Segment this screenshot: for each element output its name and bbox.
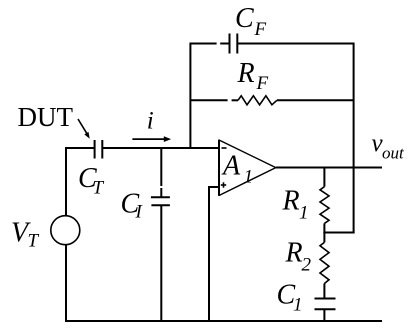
- svg-text:C: C: [235, 3, 254, 34]
- svg-text:DUT: DUT: [18, 102, 74, 132]
- wire: junction to feedback vertical: [323, 232, 354, 234]
- svg-text:A: A: [221, 151, 241, 182]
- label C_T: [78, 163, 105, 199]
- wire: R2 top lead: [323, 233, 325, 243]
- svg-text:1: 1: [299, 203, 309, 224]
- svg-text:T: T: [28, 231, 40, 252]
- label V_T: [11, 218, 40, 252]
- svg-text:R: R: [282, 186, 300, 217]
- label A_1: [221, 151, 253, 188]
- wire: feedback right vertical (down to R1-R2 junction): [353, 43, 355, 234]
- svg-text:F: F: [254, 19, 267, 40]
- label C_F: [235, 3, 267, 40]
- wire: C_F right lead to right feedback vertical: [237, 43, 354, 45]
- capacitor C_T: [95, 140, 103, 159]
- wire: main input wire C_T to op-amp inverting input: [102, 147, 218, 149]
- svg-text:F: F: [256, 73, 269, 94]
- capacitor C_F: [230, 34, 238, 54]
- svg-text:R: R: [237, 58, 255, 89]
- label R_2: [285, 238, 312, 276]
- label v_out: [372, 130, 406, 163]
- label R_F: [237, 58, 269, 94]
- svg-text:1: 1: [244, 167, 254, 188]
- svg-text:1: 1: [293, 295, 303, 316]
- resistor R2: [320, 242, 329, 283]
- wire: V_T top lead: [65, 147, 67, 216]
- svg-text:2: 2: [302, 255, 312, 276]
- resistor R_F: [238, 96, 277, 105]
- wire: C_F left lead: [190, 43, 230, 45]
- wire: R_F left lead: [190, 99, 239, 101]
- svg-text:out: out: [382, 144, 405, 163]
- wire: top-left horizontal from left corner to C_T: [66, 147, 95, 149]
- svg-text:R: R: [285, 238, 303, 269]
- op-amp minus input mark: [222, 147, 227, 149]
- op-amp plus input mark: [221, 182, 226, 187]
- annotation arrow from DUT to C_T: [78, 119, 90, 139]
- wire: feedback left vertical (inverting node up to feedback network): [189, 43, 191, 149]
- wire: non-inverting input lead: [209, 186, 219, 188]
- label C_1: [277, 280, 303, 316]
- resistor R1: [320, 187, 329, 224]
- wire: C_I top lead: [160, 148, 162, 197]
- wire: R_F right lead: [277, 99, 354, 101]
- source V_T: [51, 216, 80, 245]
- wire: C_1 bottom lead to ground rail: [323, 309, 325, 322]
- capacitor C_1: [315, 299, 336, 310]
- op-amp A1: [219, 140, 276, 196]
- wire: non-inverting input vertical to ground rail: [208, 186, 210, 322]
- wire: R2 bottom lead: [323, 284, 325, 299]
- wire: op-amp output to v_out: [276, 167, 382, 169]
- svg-text:T: T: [93, 178, 105, 199]
- wire: C_I bottom lead: [160, 205, 162, 322]
- wire: V_T bottom lead: [65, 245, 67, 322]
- svg-text:i: i: [147, 108, 154, 135]
- wire: ground rail (bottom): [65, 320, 382, 322]
- capacitor C_I: [151, 197, 170, 205]
- wire: R1 top lead from output: [323, 167, 325, 187]
- label R_1: [282, 186, 309, 224]
- label C_I: [121, 189, 144, 223]
- wire: R1 bottom lead to junction: [323, 223, 325, 233]
- current arrow i: [132, 136, 171, 142]
